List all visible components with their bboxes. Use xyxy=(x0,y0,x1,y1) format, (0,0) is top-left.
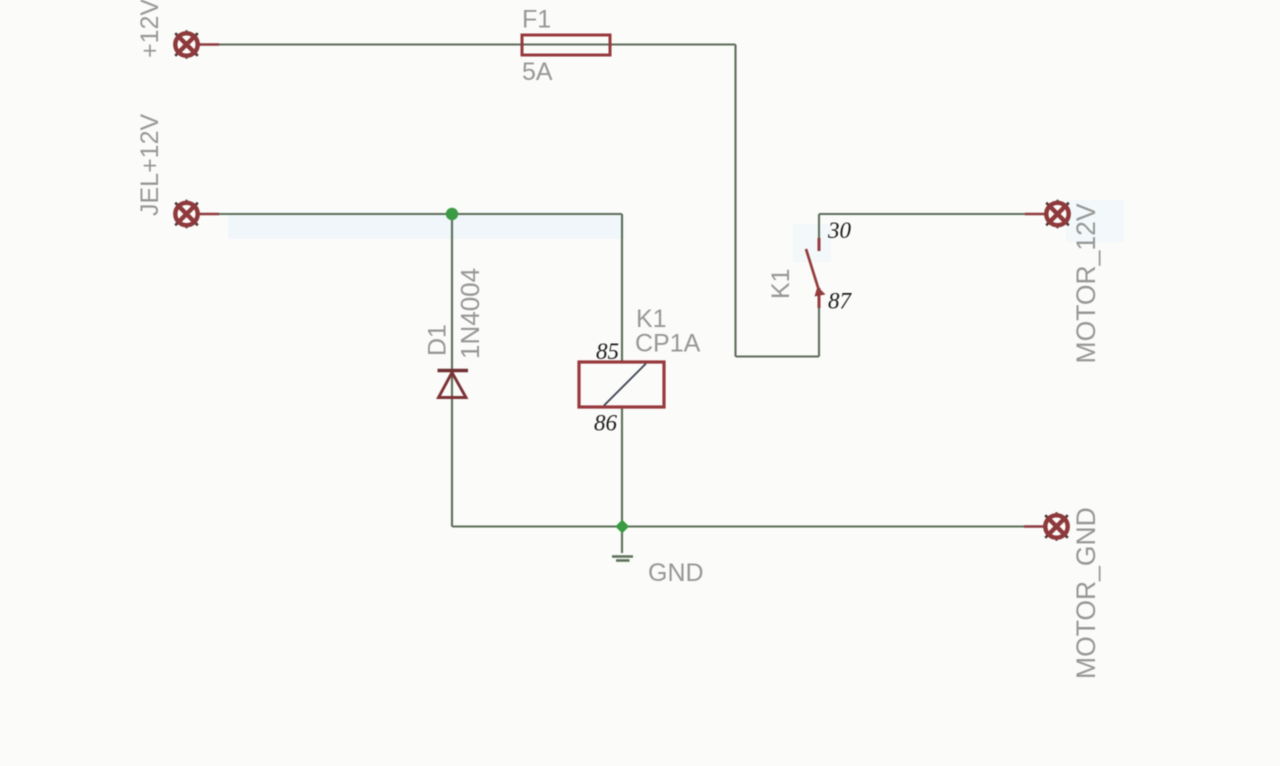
value label CP1A xyxy=(635,330,701,358)
wire vertical drop from fuse corner xyxy=(734,45,736,357)
node junction on JEL+12V net xyxy=(446,208,458,220)
wire horizontal to MOTOR_12V pin xyxy=(819,213,1046,215)
pin MOTOR_12V (connector pad) xyxy=(1025,200,1069,229)
net label +12V xyxy=(136,0,164,58)
net label GND xyxy=(648,559,704,587)
wire JEL+12V horizontal xyxy=(199,213,622,215)
pin number 85 xyxy=(596,339,619,364)
reference label K1 (contact, rotated) xyxy=(767,268,795,299)
value label 5A xyxy=(522,58,553,86)
svg-text:MOTOR_GND: MOTOR_GND xyxy=(1071,507,1101,679)
node junction on GND net xyxy=(615,520,629,534)
fuse F1 xyxy=(522,35,610,55)
reference label F1 xyxy=(522,6,551,34)
svg-text:85: 85 xyxy=(596,339,619,364)
wire bottom horizontal to MOTOR_GND pin xyxy=(452,525,1045,527)
svg-text:87: 87 xyxy=(828,289,853,314)
reference label K1 (coil) xyxy=(636,305,667,333)
pin number 87 xyxy=(828,289,853,314)
wire contact 30 stub up to corner xyxy=(818,214,820,240)
svg-text:5A: 5A xyxy=(522,58,553,86)
pin +12V (connector pad) xyxy=(175,30,219,59)
svg-text:CP1A: CP1A xyxy=(635,330,701,358)
wire relay coil bottom down xyxy=(621,407,623,527)
svg-text:+12V: +12V xyxy=(136,0,164,58)
pin JEL+12V (connector pad) xyxy=(175,200,219,229)
net label MOTOR_12V xyxy=(1071,203,1101,363)
svg-text:30: 30 xyxy=(827,218,852,243)
svg-text:1N4004: 1N4004 xyxy=(455,268,485,359)
svg-text:JEL+12V: JEL+12V xyxy=(136,114,164,216)
svg-text:86: 86 xyxy=(594,411,618,436)
pin number 30 xyxy=(827,218,852,243)
svg-text:GND: GND xyxy=(648,559,704,587)
wire GND stub xyxy=(621,527,623,554)
relay coil K1 CP1A xyxy=(579,362,664,407)
wire vertical up to contact 87 xyxy=(818,306,820,357)
svg-text:K1: K1 xyxy=(767,268,795,299)
relay switch contact K1 (30/87) xyxy=(806,238,826,308)
wire vertical to relay coil top xyxy=(621,214,623,362)
pin MOTOR_GND (connector pad) xyxy=(1024,512,1068,541)
net label MOTOR_GND xyxy=(1071,507,1101,679)
pin number 86 xyxy=(594,411,618,436)
wire net +12V horizontal from pin to fuse to corner xyxy=(199,43,736,45)
svg-text:D1: D1 xyxy=(424,324,452,356)
value label 1N4004 (rotated) xyxy=(455,268,485,359)
ground xyxy=(612,557,633,561)
wire horizontal to switch bottom xyxy=(736,355,820,357)
wire diode branch vertical xyxy=(451,214,453,527)
net label JEL+12V xyxy=(136,114,164,216)
svg-text:MOTOR_12V: MOTOR_12V xyxy=(1071,203,1101,363)
diode D1 1N4004 xyxy=(438,371,469,398)
reference label D1 (rotated) xyxy=(424,324,452,356)
svg-text:F1: F1 xyxy=(522,6,551,34)
